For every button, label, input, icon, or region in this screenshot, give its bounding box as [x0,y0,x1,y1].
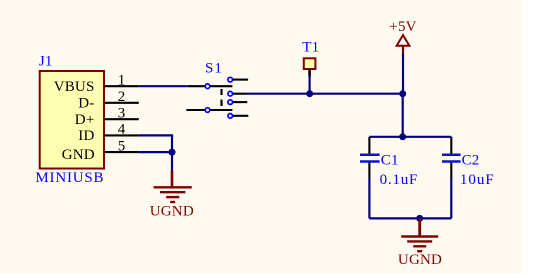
designator J1 [39,54,53,70]
pin 3 D+ [75,105,139,127]
connector J1 body [40,71,104,169]
junction at +5V column [399,90,406,97]
wire GND node down to ground [171,152,173,171]
wire main net switch to +5V [246,93,403,95]
capacitor C2 [442,137,461,178]
svg-text:C2: C2 [462,153,480,169]
svg-text:3: 3 [118,105,126,121]
switch S1 throw contact 1 [228,77,248,82]
switch S1 throw contact 3 [228,100,247,105]
wire cap top rail [369,136,451,138]
wire VBUS to switch [139,85,188,87]
value 0.1uF [380,172,419,188]
switch S1 pole arm bottom [186,109,232,111]
test point T1 designator [302,40,319,56]
power port +5V [389,19,416,53]
comment MINIUSB [35,170,104,186]
switch S1 mechanical link dashed [220,89,222,106]
svg-text:T1: T1 [302,40,319,56]
pin 2 D- [78,89,139,111]
svg-text:10uF: 10uF [460,172,495,188]
switch S1 designator [205,61,223,77]
ground UGND left [150,171,194,220]
pin 5 GND [62,138,139,163]
switch S1 throw contact 4 [228,114,248,119]
svg-text:0.1uF: 0.1uF [380,172,419,188]
svg-text:J1: J1 [39,54,53,70]
svg-text:UGND: UGND [398,252,442,268]
svg-text:C1: C1 [381,153,399,169]
switch S1 pole contact bottom [205,108,210,113]
test point T1 pad [304,58,316,76]
svg-text:1: 1 [118,72,126,88]
wire +5V to main net [402,53,404,93]
svg-text:D+: D+ [75,112,95,128]
capacitor C1 [360,137,380,178]
svg-text:4: 4 [118,122,126,138]
svg-text:VBUS: VBUS [54,79,95,95]
wire C1 to bottom rail [368,178,370,219]
svg-text:5: 5 [118,138,126,154]
switch S1 throw contact 2 [228,91,246,96]
switch S1 pole arm top [188,85,233,87]
pin 4 ID [78,122,139,144]
wire C2 to bottom rail [450,178,452,219]
svg-text:S1: S1 [205,61,223,77]
designator C2 [462,153,480,169]
wire ID down to GND [171,135,173,152]
wire main net down to cap rail [402,94,404,137]
svg-text:GND: GND [62,147,95,163]
wire ID horizontal [139,134,173,136]
pin 1 VBUS [54,72,139,94]
wire cap bottom rail [369,217,451,219]
junction at GND node [169,149,176,156]
junction at T1 [306,90,313,97]
wire GND pin to node [139,151,172,153]
svg-text:ID: ID [78,128,94,144]
switch S1 pole contact top [205,84,210,89]
designator C1 [381,153,399,169]
svg-text:2: 2 [118,89,126,105]
junction at bottom rail [416,215,423,222]
svg-text:MINIUSB: MINIUSB [35,170,104,186]
junction at cap top rail [399,133,406,140]
wire T1 to main net [309,76,311,94]
svg-text:+5V: +5V [389,19,416,35]
ground UGND bottom [398,218,442,267]
svg-text:D-: D- [78,95,94,111]
value 10uF [460,172,495,188]
svg-text:UGND: UGND [150,203,194,219]
